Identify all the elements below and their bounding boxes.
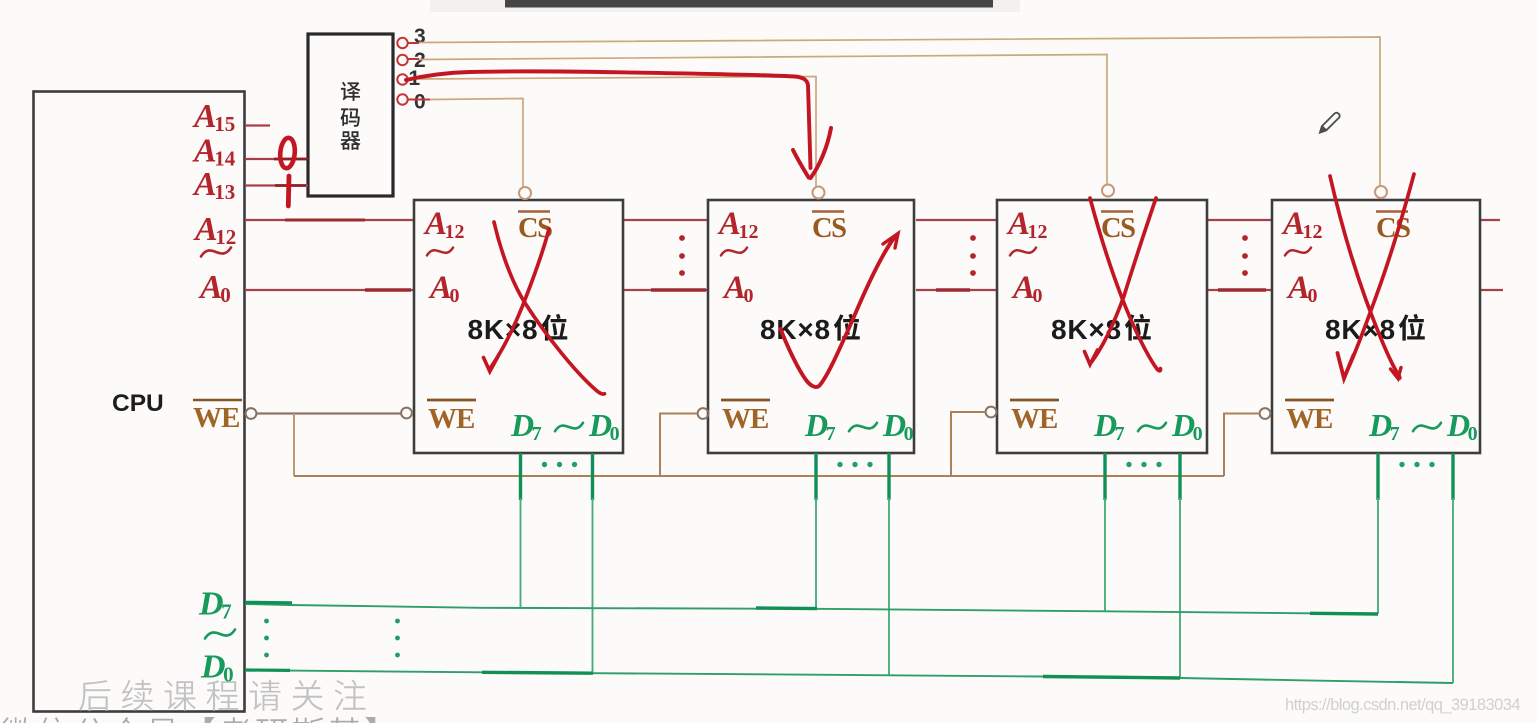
svg-text:CS: CS	[1101, 213, 1135, 244]
pencil cursor icon	[1320, 113, 1340, 133]
data dots	[1156, 462, 1161, 467]
CPU box	[34, 92, 245, 712]
watermark2 char 研	[256, 719, 287, 723]
chip U2 CS circle	[813, 187, 825, 199]
wire output0 to chip1 CS	[430, 99, 523, 188]
wire A12 bus	[245, 219, 414, 221]
A0 bus thick segment	[1218, 288, 1266, 292]
decoder output circle 1	[397, 74, 407, 84]
chip U4 WE overline	[1285, 399, 1334, 402]
data dots	[852, 462, 857, 467]
D0 thick seg2	[1043, 677, 1180, 679]
wire A15 stub	[245, 124, 270, 126]
data dots near CPU	[264, 653, 269, 658]
wire output2 to chip3 CS	[419, 55, 1107, 185]
chip D tilde	[849, 423, 877, 431]
memory chip U3 box	[997, 200, 1207, 453]
D7 thick seg2	[1310, 612, 1378, 616]
data dots	[837, 462, 842, 467]
wire A0 bus	[1480, 289, 1503, 291]
decoder box	[308, 34, 393, 196]
faint top smudge	[430, 0, 1020, 12]
WE overline (CPU)	[193, 399, 242, 402]
chip U2 位	[834, 314, 860, 341]
bus dots	[1242, 235, 1248, 241]
D0 thick seg	[482, 671, 593, 675]
wire A12 bus	[1207, 219, 1272, 221]
wire A13 to decoder	[245, 184, 308, 186]
bus dots	[970, 253, 976, 259]
svg-text:WE: WE	[193, 402, 239, 434]
memory chip U2 box	[708, 200, 914, 453]
chip U1 CS circle	[519, 187, 531, 199]
data dots	[1141, 462, 1146, 467]
watermark2 char 基	[329, 717, 360, 723]
chip tilde addr	[1285, 248, 1311, 256]
chip2 checkmark	[781, 238, 895, 387]
WE riser chip2	[660, 414, 698, 477]
decoder output circle 0	[397, 94, 407, 104]
watermark char 程	[207, 680, 239, 710]
svg-text:WE: WE	[428, 403, 474, 435]
watermark char 注	[335, 680, 366, 711]
data dots	[1429, 462, 1434, 467]
chip1 arrowhead	[484, 357, 499, 372]
chip U2 CS overline	[812, 210, 844, 213]
watermark2 char 斯	[293, 717, 324, 723]
chip4 data stub left	[1376, 453, 1379, 500]
wire A0 bus	[1207, 289, 1272, 291]
data dots	[867, 462, 872, 467]
data dots	[1126, 462, 1131, 467]
chip2 check arrowhead	[883, 234, 898, 249]
wire A0 bus	[916, 289, 997, 291]
data dots	[572, 462, 577, 467]
D7 thick near CPU	[245, 601, 292, 605]
svg-text:3: 3	[414, 25, 426, 48]
chip U4 WE circle	[1260, 408, 1271, 419]
watermark2 char 】	[365, 717, 375, 723]
decoder text 码	[341, 108, 360, 126]
bus dots	[679, 235, 685, 241]
A0 bus thick segment	[365, 288, 411, 292]
chip2 data drop right	[888, 498, 890, 675]
chip U1 位	[541, 314, 567, 341]
wire CPU WE circle	[246, 408, 257, 419]
D0 bus	[245, 670, 1453, 683]
chip U3 CS overline	[1101, 210, 1133, 213]
bus dots	[970, 235, 976, 241]
WE riser chip3	[951, 412, 986, 476]
svg-text:0: 0	[414, 91, 426, 114]
watermark2 char 信	[38, 717, 69, 723]
chip4 data drop left	[1377, 498, 1379, 614]
chip tilde addr	[1010, 248, 1036, 256]
decoder text 器	[341, 131, 361, 150]
chip3 data stub right	[1178, 453, 1181, 500]
A12 bus thick segment	[285, 219, 365, 222]
chip4 data drop right	[1452, 498, 1454, 683]
tilde (CPU data)	[205, 630, 235, 639]
A0 bus thick segment	[651, 288, 706, 292]
data dots	[1399, 462, 1404, 467]
watermark2 char 公	[75, 718, 106, 723]
decoder text 译	[341, 82, 361, 101]
memory chip U4 box	[1272, 200, 1480, 453]
memory chip U1 box	[414, 200, 623, 453]
wire A13 dark segment	[275, 184, 306, 187]
D7 bus	[245, 604, 1378, 614]
handwritten 1 on A13	[286, 176, 292, 206]
svg-text:8K×8: 8K×8	[468, 314, 539, 345]
bus dots	[1242, 253, 1248, 259]
chip4 stroke A arrowtip	[1391, 368, 1402, 379]
wire A14 dark segment	[274, 158, 308, 161]
chip tilde addr	[721, 248, 747, 256]
chip U1 CS overline	[518, 210, 550, 213]
chip D tilde	[1138, 423, 1166, 431]
chip2 data stub right	[887, 453, 890, 500]
data dots near CPU	[264, 619, 269, 624]
wire output3 to chip4 CS	[419, 37, 1380, 187]
chip D tilde	[555, 423, 583, 431]
decoder output circle 2	[397, 55, 407, 65]
wire A0 bus	[623, 289, 708, 291]
svg-text:8K×8: 8K×8	[760, 314, 831, 345]
dark top bar	[505, 0, 993, 8]
chip tilde addr	[427, 248, 453, 256]
watermark char 续	[122, 680, 153, 711]
chip D tilde	[1413, 423, 1441, 431]
watermark char 后	[79, 680, 110, 711]
stub from output 2	[408, 58, 419, 60]
chip2 data drop left	[815, 498, 817, 609]
wire A0 bus	[245, 289, 414, 291]
chip4 cross stroke A	[1330, 176, 1400, 379]
watermark2 char 众	[111, 717, 142, 723]
chip1 cross stroke A	[494, 222, 605, 394]
watermark2 char 微	[1, 717, 33, 723]
chip4 arrowhead	[1338, 353, 1354, 379]
stub from output 3	[408, 42, 419, 44]
wire A12 bus	[1480, 219, 1500, 221]
data dots	[1414, 462, 1419, 467]
watermark char 请	[250, 680, 281, 711]
hand arrow barb left	[793, 150, 809, 178]
chip1 data stub right	[591, 453, 594, 500]
chip U3 WE circle	[986, 407, 997, 418]
chip1 cross stroke B	[491, 229, 549, 367]
chip U2 WE circle	[698, 408, 709, 419]
chip1 data stub left	[519, 453, 522, 500]
chip U3 位	[1125, 314, 1151, 341]
chip U2 WE overline	[721, 399, 770, 402]
svg-text:https://blog.csdn.net/qq_39183: https://blog.csdn.net/qq_39183034	[1285, 696, 1520, 714]
svg-text:WE: WE	[1011, 403, 1057, 435]
wire A12 bus	[916, 219, 997, 221]
chip U3 CS circle	[1102, 185, 1114, 197]
chip4 cross stroke B	[1347, 174, 1415, 372]
tilde (CPU addr)	[201, 248, 231, 257]
A0 bus thick segment	[936, 288, 970, 292]
D0 thick near CPU	[245, 668, 290, 672]
svg-text:WE: WE	[1286, 403, 1332, 435]
data dots	[557, 462, 562, 467]
data dots near CPU	[395, 619, 400, 624]
data dots	[542, 462, 547, 467]
wire A12 bus	[623, 219, 708, 221]
watermark char 关	[292, 680, 323, 711]
chip3 data drop left	[1104, 498, 1106, 612]
chip U1 WE circle	[401, 408, 412, 419]
chip U1 WE overline	[427, 399, 476, 402]
D7 thick seg	[756, 606, 817, 610]
chip3 data stub left	[1103, 453, 1106, 500]
svg-text:CPU: CPU	[112, 390, 164, 417]
watermark2 char 考	[220, 717, 250, 723]
data dots near CPU	[264, 636, 269, 641]
chip1 data drop left	[520, 498, 522, 607]
svg-text:WE: WE	[722, 403, 768, 435]
chip3 cross stroke A	[1090, 198, 1161, 371]
wire CPU WE to chip1	[257, 412, 402, 414]
wire A14 to decoder	[245, 158, 308, 160]
bus dots	[679, 270, 685, 276]
watermark char 课	[165, 681, 196, 711]
chip U4 CS overline	[1376, 210, 1408, 213]
watermark2 char 【	[205, 717, 215, 723]
chip3 arrowhead	[1085, 350, 1098, 365]
chip U4 CS circle	[1375, 186, 1387, 198]
handwritten 0 on A14	[279, 137, 296, 169]
chip U4 位	[1399, 314, 1425, 341]
wire output1 to chip2 CS	[419, 77, 816, 187]
WE riser chip4	[1224, 414, 1260, 477]
stub from output 0	[408, 99, 430, 101]
chip2 data stub left	[814, 453, 817, 500]
data dots near CPU	[395, 636, 400, 641]
bus dots	[679, 253, 685, 259]
chip1 data drop right	[592, 498, 594, 673]
data dots near CPU	[395, 653, 400, 658]
chip3 cross stroke B	[1092, 198, 1157, 362]
bus dots	[1242, 270, 1248, 276]
decoder output circle 3	[397, 38, 407, 48]
svg-text:CS: CS	[812, 213, 846, 244]
chip3 data drop right	[1179, 498, 1181, 678]
WE bus horizontal	[294, 475, 1224, 477]
hand arrow barb right	[811, 128, 832, 178]
chip4 data stub right	[1451, 453, 1454, 500]
hand line output1	[406, 71, 811, 168]
watermark2 char 号	[148, 719, 177, 723]
svg-text:CS: CS	[1376, 213, 1410, 244]
chip U3 WE overline	[1010, 399, 1059, 402]
bus dots	[970, 270, 976, 276]
WE branch vertical	[293, 414, 295, 477]
